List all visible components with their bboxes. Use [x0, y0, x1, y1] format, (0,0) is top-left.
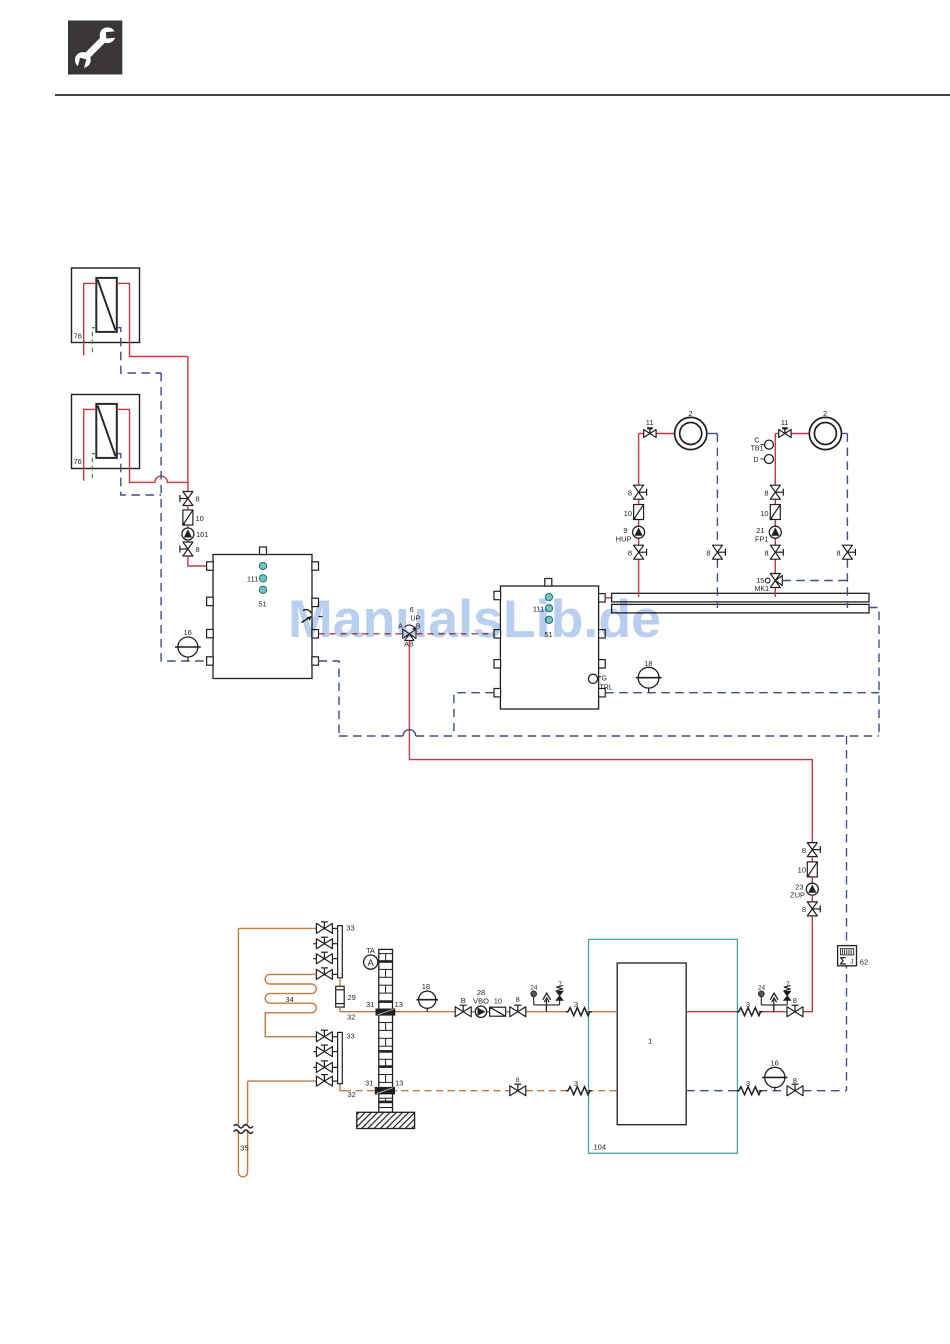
svg-text:62: 62 [860, 958, 868, 967]
pipe blue dashed unit1 bottom right [319, 661, 340, 736]
svg-text:76: 76 [74, 332, 82, 341]
valve 33 manifold upper row1 [316, 922, 332, 934]
heat exchanger box 76 (upper) [72, 268, 140, 343]
svg-text:A: A [368, 958, 375, 969]
heating circuit 2: red riser [775, 434, 809, 598]
valve 8 (source chain bottom) [180, 542, 193, 556]
svg-text:11: 11 [646, 418, 654, 427]
svg-text:76: 76 [74, 457, 82, 466]
svg-text:21: 21 [756, 526, 764, 535]
3-way valve UP (DHW diverter) [398, 607, 421, 649]
heat meter 62 [838, 946, 869, 968]
svg-text:8: 8 [802, 846, 806, 855]
manifold rail lower [612, 604, 869, 613]
svg-text:HUP: HUP [616, 535, 632, 544]
svg-text:16: 16 [770, 1058, 778, 1067]
unit2 left ports [494, 591, 501, 697]
pipe red supply HX1 left [84, 283, 97, 355]
foundation block [357, 1112, 415, 1128]
valve 33 manifold upper row4 [316, 968, 332, 980]
flex hose 3 (return right) [737, 1087, 763, 1095]
svg-text:VBO: VBO [473, 997, 489, 1006]
unit2 status leds 111 / 51 [533, 594, 553, 640]
svg-text:8: 8 [764, 489, 768, 498]
svg-text:111: 111 [247, 575, 258, 584]
svg-text:8: 8 [793, 996, 797, 1005]
svg-text:32: 32 [348, 1090, 356, 1099]
pipe red dashed unit1 to 3way valve [319, 633, 403, 635]
svg-text:ZUP: ZUP [790, 891, 805, 900]
pipe red buffer drop [803, 916, 812, 1012]
filter 10 (brine) [489, 1007, 506, 1017]
pipe blue dashed MK1 branch [782, 580, 847, 582]
unit2 right ports [599, 594, 606, 697]
valve 8 (buffer chain bottom) [807, 902, 820, 916]
svg-text:3: 3 [746, 1079, 750, 1088]
valve 33 manifold lower row2 [316, 1045, 332, 1057]
svg-text:8: 8 [802, 905, 806, 914]
svg-text:18: 18 [644, 659, 652, 668]
svg-text:8: 8 [516, 995, 520, 1004]
svg-text:13: 13 [395, 1000, 403, 1009]
sensor C TB1 [751, 437, 774, 452]
svg-text:24: 24 [758, 985, 766, 992]
svg-text:8: 8 [764, 549, 768, 558]
safety group left: manometer 24, vent, safety valve 7 [530, 981, 563, 1012]
svg-text:15: 15 [756, 578, 764, 585]
pipe orange probe top run [238, 927, 316, 929]
pipe orange dashed brine return row [340, 1084, 617, 1091]
svg-text:3: 3 [574, 1000, 578, 1009]
expansion vessel 16 (tank return) [762, 1058, 787, 1090]
pipe blue dashed right downcomer to tank [846, 736, 848, 1091]
valve 8 (circuit1 upper) [634, 485, 647, 499]
pipe blue circuit2 return [842, 433, 848, 435]
svg-text:29: 29 [348, 993, 356, 1002]
svg-text:8: 8 [196, 495, 200, 504]
valve 33 manifold lower row4 [316, 1075, 332, 1087]
svg-text:101: 101 [196, 530, 209, 539]
wrench icon tile [68, 21, 123, 76]
pipe orange brine supply row [340, 1011, 617, 1013]
svg-text:16: 16 [184, 628, 192, 637]
pipe blue dashed long return with hop [339, 735, 403, 737]
pipe red supply HX2 left [84, 409, 97, 480]
heating circuit 1: red riser [639, 434, 675, 598]
svg-text:13: 13 [395, 1079, 403, 1088]
valve 33 manifold upper row3 [316, 952, 332, 964]
valve 8 (circuit1 return) [712, 545, 725, 559]
manifold valves 33 (upper group) [313, 928, 337, 974]
throttle 29 [336, 978, 356, 1012]
pipe blue dashed unit2 bottom-left branch [454, 693, 494, 736]
svg-text:TRL: TRL [600, 685, 613, 692]
svg-text:MK1: MK1 [755, 586, 770, 593]
svg-text:34: 34 [285, 995, 293, 1004]
svg-text:10: 10 [494, 997, 502, 1006]
svg-text:24: 24 [530, 985, 538, 992]
svg-text:TA: TA [366, 948, 375, 955]
pipe blue dashed rail2 drop right [869, 608, 879, 737]
pipe red into unit1 [188, 556, 207, 566]
unit1 flow sensor mark [302, 610, 323, 623]
buffer tank 1 [617, 963, 686, 1125]
pipe green dashed HX2 [92, 454, 96, 481]
svg-text:7: 7 [786, 981, 790, 988]
svg-text:10: 10 [798, 866, 806, 875]
pump 21 FP1 [769, 526, 781, 538]
pipe green dashed HX1 [92, 328, 96, 356]
pipe blue circuit1 return [707, 433, 718, 435]
pipe red supply HX1 right to drop [117, 283, 188, 356]
svg-text:18: 18 [422, 982, 430, 991]
valve 8 (brine) [510, 1005, 526, 1017]
svg-text:2: 2 [688, 409, 692, 418]
buffer tank outer boundary 104 [589, 939, 738, 1153]
svg-text:Σ: Σ [840, 955, 847, 967]
svg-text:8: 8 [628, 549, 632, 558]
manifold rail upper [612, 593, 869, 602]
brine manifold upper bar [338, 924, 355, 978]
flex hose 3 (brine supply) [566, 1008, 592, 1016]
svg-text:C: C [754, 437, 759, 444]
svg-text:31: 31 [366, 1000, 374, 1009]
unit1 status leds 111 / 51 [247, 562, 267, 608]
valve 8 (circuit1 lower) [634, 545, 647, 559]
svg-text:11: 11 [781, 418, 789, 427]
header rule [55, 94, 950, 96]
valve B (brine) [455, 1005, 471, 1017]
heating circle 2 (circuit2) [809, 409, 841, 450]
pipe blue dashed HX2 return [117, 454, 161, 495]
svg-text:FP1: FP1 [755, 535, 769, 544]
manifold valves 33 (lower group) [313, 1037, 337, 1081]
valve 8 (circuit2 upper) [770, 485, 783, 499]
heating circle 2 (circuit1) [675, 409, 707, 450]
svg-text:B: B [461, 996, 466, 1005]
valve 8 (circuit2 lower) [770, 545, 783, 559]
pipe blue dashed HX1 return [117, 328, 161, 373]
sensor G TRL [588, 674, 612, 691]
svg-text:33: 33 [346, 1031, 354, 1040]
expansion vessel 16 (unit1) [175, 628, 201, 661]
svg-text:10: 10 [760, 509, 768, 518]
valve 11 (circuit2) [779, 428, 791, 437]
valve 8 (circuit2 return) [842, 545, 855, 559]
svg-text:G: G [602, 676, 607, 683]
valve 8 (brine return) [510, 1084, 526, 1096]
svg-text:1: 1 [648, 1037, 652, 1046]
ground probe 35 [234, 928, 253, 1177]
svg-text:J: J [850, 959, 853, 966]
pump 101 [182, 528, 194, 540]
valve 8 (source chain top) [180, 492, 193, 506]
svg-text:10: 10 [624, 509, 632, 518]
svg-text:104: 104 [594, 1142, 607, 1151]
svg-text:3: 3 [574, 1079, 578, 1088]
pipe red dashed 3way valve to unit2 [416, 633, 493, 635]
mixer valve 15 MK1 [755, 574, 783, 593]
expansion vessel 18 (brine) [416, 982, 438, 1012]
filter 10 (buffer chain) [807, 862, 818, 878]
unit 1 (hydraulic module) [213, 547, 312, 679]
brine manifold lower bar [338, 1031, 355, 1083]
svg-text:7: 7 [558, 981, 562, 988]
valve 33 manifold lower row1 [316, 1030, 332, 1042]
valve 8 (tank return) [787, 1084, 803, 1096]
svg-text:33: 33 [346, 924, 354, 933]
pump 23 ZUP [806, 883, 818, 895]
unit1 right ports [312, 562, 319, 665]
svg-text:8: 8 [516, 1077, 520, 1084]
filter 10 (circuit2) [770, 505, 781, 521]
svg-text:3: 3 [746, 1000, 750, 1009]
svg-text:8: 8 [628, 489, 632, 498]
pump 28 VBO [475, 1006, 486, 1017]
svg-text:8: 8 [836, 549, 840, 558]
svg-text:D: D [754, 457, 759, 464]
pipe red drop to valve chain [187, 357, 189, 492]
svg-text:10: 10 [196, 514, 204, 523]
svg-text:31: 31 [365, 1079, 373, 1088]
flex hose 3 (brine return) [566, 1087, 592, 1095]
ground collector coil 34 [265, 974, 316, 1036]
sensor D [754, 455, 774, 464]
pipe red unit2 to manifold rail [605, 597, 611, 599]
svg-text:2: 2 [823, 409, 827, 418]
wall passage column [379, 949, 393, 1112]
filter 10 (source chain) [182, 510, 193, 526]
pipe red tank supply right [686, 1011, 737, 1013]
valve 8 (buffer chain top) [807, 843, 820, 857]
wall sleeve 31/13 (supply) [347, 1000, 403, 1022]
safety group right: manometer 24, vent, safety valve 7 [758, 981, 791, 1012]
filter 10 (circuit1) [633, 505, 644, 521]
pipe blue dashed tank return right [686, 1090, 737, 1092]
svg-text:35: 35 [240, 1144, 248, 1153]
svg-text:51: 51 [258, 600, 266, 609]
valve 8 (tank supply) [787, 1005, 803, 1017]
valve 33 manifold lower row3 [316, 1061, 332, 1073]
flex hose 3 (supply right) [737, 1008, 763, 1016]
wall sleeve 31/13 (return) [348, 1079, 404, 1100]
heat exchanger box 76 (lower) [72, 395, 140, 469]
pipe blue dashed unit2 bottom row [605, 692, 879, 694]
svg-text:9: 9 [623, 526, 627, 535]
svg-text:ManualsLib.de: ManualsLib.de [288, 590, 661, 649]
pipe blue dashed main left riser [161, 373, 207, 661]
outdoor sensor TA [364, 948, 378, 969]
svg-text:8: 8 [196, 545, 200, 554]
svg-text:32: 32 [347, 1013, 355, 1022]
unit1 left ports [207, 562, 214, 665]
unit 2 (heat pump indoor unit) [500, 579, 598, 710]
svg-text:8: 8 [793, 1076, 797, 1085]
valve 33 manifold upper row2 [316, 937, 332, 949]
svg-text:8: 8 [706, 549, 710, 558]
svg-text:TB1: TB1 [751, 446, 764, 453]
pump 9 HUP [633, 526, 645, 538]
valve 11 (circuit1) [644, 428, 656, 437]
pipe orange probe bottom run [248, 1080, 317, 1082]
pipe red supply HX2 right with hop [117, 409, 188, 482]
expansion vessel 18 (unit2) [636, 659, 662, 693]
pipe red AB drop and long run right [409, 641, 812, 843]
